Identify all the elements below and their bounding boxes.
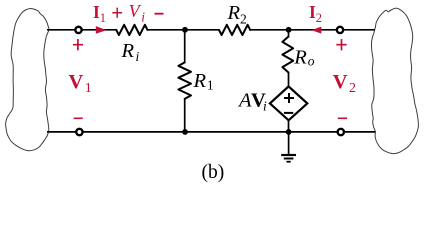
wire: Ro to dependent source [288,72,290,88]
ground bar 3 [287,161,291,163]
wire: Ri to node A [147,29,220,31]
label - bottom-right terminal [338,117,347,119]
wire: Ro top lead [288,30,290,38]
wire: R1 bottom lead [184,98,186,131]
svg-text:R: R [227,2,241,24]
resistor Ri [116,25,147,35]
terminal circle top-left [75,27,81,33]
label - (Vi polarity) [155,13,164,15]
wire: terminal to resistor Ri [81,29,117,31]
terminal circle top-right [337,27,343,33]
wire: R2 to node B [250,29,337,31]
terminal circle bottom-right [338,129,344,135]
wire: source to bottom rail [288,120,290,132]
label + (Vi polarity) [112,8,122,18]
node C (bottom of R1) [182,129,188,135]
svg-text:1: 1 [207,77,214,92]
wire: bottom terminal to right blob [344,131,376,133]
resistor Ro [282,37,293,73]
ground bar 2 [284,158,294,160]
svg-text:(b): (b) [202,162,225,183]
wire bottom: left blob to terminal [47,131,77,133]
svg-text:V: V [69,71,84,93]
resistor R1 [178,62,191,99]
wire: terminal to right blob [343,29,375,31]
svg-text:A: A [237,90,252,112]
svg-text:R: R [193,70,207,92]
label + top-right terminal [336,39,346,50]
svg-text:V: V [333,71,348,93]
node B (top of Ro) [286,27,292,33]
label + top-left terminal [73,39,83,50]
svg-text:i: i [136,49,140,64]
svg-text:i: i [263,99,267,114]
node D (ground node) [286,129,292,135]
svg-text:o: o [308,53,315,68]
right external network blob [371,8,418,153]
svg-text:R: R [293,46,307,68]
wire top: left blob to terminal [47,29,76,31]
current arrow I1 [96,26,107,34]
svg-text:R: R [121,40,135,62]
ground bar 1 [281,154,296,156]
left external network blob [6,8,49,150]
svg-text:1: 1 [100,11,106,25]
svg-text:2: 2 [316,11,322,25]
svg-text:2: 2 [240,11,247,26]
node A (top of R1) [182,27,188,33]
resistor R2 [219,25,250,35]
wire: R1 top lead [184,30,186,63]
ground stem [288,132,290,155]
dependent source AVi (diamond) [270,86,307,120]
minus sign inside source [284,112,293,114]
label - bottom-left terminal [74,117,83,119]
svg-text:2: 2 [349,81,356,96]
plus sign inside source [284,93,294,103]
terminal circle bottom-left [76,129,82,135]
wire bottom rail [82,131,338,133]
svg-text:1: 1 [85,81,92,96]
svg-text:i: i [141,10,145,25]
current arrow I2 [311,27,321,34]
